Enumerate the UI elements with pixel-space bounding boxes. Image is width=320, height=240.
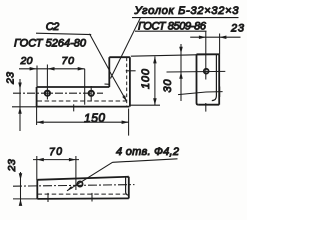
plate hidden edge dashed	[38, 100, 127, 102]
dim 100 bottom arrow	[153, 98, 157, 105]
bottom hole tick 2	[91, 193, 93, 202]
dim 23 main bottom extension	[12, 106, 37, 108]
bottom view hidden line	[38, 193, 126, 195]
plate top edge	[37, 86, 110, 88]
hole H1	[45, 91, 50, 96]
svg-text:70: 70	[49, 146, 63, 159]
dim 150 line	[37, 121, 129, 123]
svg-text:150: 150	[84, 111, 106, 126]
side hole vertical centerline lower	[205, 103, 207, 112]
bottom view hole	[77, 181, 82, 186]
svg-text:23: 23	[6, 159, 18, 172]
dim 70 left arrow	[48, 67, 55, 71]
bottom view centerline	[13, 185, 135, 187]
dim 23 main top arrow	[18, 83, 22, 90]
side view bottom edge	[198, 104, 219, 106]
angle GOST underline	[135, 30, 207, 32]
bottom view right edge	[128, 177, 130, 199]
angle title underline	[132, 17, 239, 19]
svg-text:23: 23	[230, 23, 245, 35]
dim 20 left arrow	[30, 67, 37, 71]
dim 23 top right extension	[219, 34, 221, 55]
dim 23 top right arrow	[219, 35, 226, 39]
centerline tick below plate	[73, 104, 75, 111]
side view right edge	[218, 54, 220, 104]
dim 23 bottom line	[20, 172, 22, 203]
bottom view bottom edge	[37, 197, 129, 200]
dim 23 bottom bottom arrow	[19, 199, 23, 206]
top edge extension to side view	[131, 54, 219, 56]
angle upright top edge	[109, 56, 130, 58]
side hole	[204, 69, 209, 74]
holes callout underline	[113, 159, 178, 163]
svg-text:Уголок Б-32×32×3: Уголок Б-32×32×3	[134, 5, 240, 17]
plate left edge extension down	[36, 107, 38, 125]
hole centerline horizontal short	[167, 70, 226, 73]
dim 150 right extension	[128, 109, 130, 136]
dim 70 bottom right extension	[75, 156, 77, 190]
bottom view top edge	[37, 177, 129, 180]
holes callout arrowhead	[67, 186, 73, 191]
dim 30 extension	[178, 92, 223, 95]
svg-text:ГОСТ 5264-80: ГОСТ 5264-80	[14, 38, 87, 50]
dim 23 bottom extension	[13, 198, 37, 200]
dim 23 main line	[19, 79, 21, 131]
angle upright right edge	[129, 57, 131, 106]
angle upright left edge	[108, 57, 110, 87]
dim 100 line	[154, 56, 156, 105]
dim 30 top arrow	[179, 47, 183, 54]
bottom hole tick 1	[47, 193, 49, 202]
side hole vertical centerline	[205, 31, 207, 79]
svg-text:70: 70	[62, 55, 75, 67]
dim 20 70 line	[19, 68, 85, 70]
dim 150 left arrow	[37, 120, 44, 124]
dim 150 right arrow	[122, 120, 129, 124]
dim 23 bottom top arrow	[19, 173, 23, 180]
dim 23 top left arrow	[199, 35, 206, 39]
holes callout leader	[67, 162, 113, 191]
svg-text:С2: С2	[46, 21, 60, 33]
plate holes centerline	[13, 92, 103, 94]
dim 23 main bottom arrow	[18, 107, 22, 114]
svg-text:4 отв. Ф4,2: 4 отв. Ф4,2	[116, 146, 179, 158]
weld shelf line	[36, 33, 91, 34]
dim 100 top arrow	[153, 56, 157, 63]
dim 70 bottom line	[33, 159, 79, 161]
dim 70 bottom left extension	[36, 156, 38, 180]
side view inner lip	[212, 54, 217, 100]
dim 30 bottom arrow	[179, 72, 183, 79]
side hole 2 center mark vertical	[219, 87, 221, 98]
dim 70 right extension line	[84, 69, 86, 105]
svg-text:100: 100	[140, 68, 152, 89]
dim 70 bottom right arrow	[69, 158, 76, 162]
weld leader line	[90, 34, 111, 72]
plate bottom edge	[37, 106, 130, 108]
plate left edge	[36, 87, 38, 107]
angle upright hidden inner edge	[126, 58, 128, 107]
dim 23 top line	[190, 36, 240, 38]
angle 45 degree cut line	[110, 72, 127, 101]
hole H1 centerline vertical	[46, 65, 48, 100]
svg-text:30: 30	[162, 79, 174, 93]
hidden hole centerline tick upright	[126, 70, 136, 72]
dim 70 bottom left arrow	[37, 158, 44, 162]
plate left corner extension up	[36, 66, 38, 88]
bottom view left edge	[36, 180, 38, 199]
side view top edge	[197, 53, 220, 55]
hole H2	[89, 91, 94, 96]
dim 70 right arrow	[78, 67, 85, 71]
dim 100 bottom extension	[129, 104, 160, 106]
angle leader to front view	[111, 18, 141, 79]
bottom view inner lip	[126, 177, 129, 195]
side view left edge	[197, 54, 199, 104]
hole H2 centerline vertical	[90, 86, 92, 102]
dim 30 line	[180, 44, 182, 101]
svg-text:23: 23	[5, 72, 17, 85]
weld seam tick at joint	[105, 83, 110, 85]
svg-text:20: 20	[20, 55, 33, 67]
cut line end arrowhead	[122, 95, 126, 101]
